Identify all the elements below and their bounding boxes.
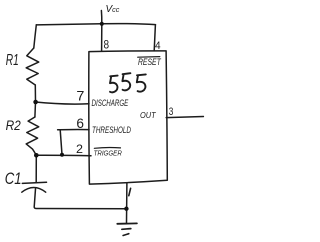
svg-text:R2: R2	[6, 117, 21, 133]
svg-text:6: 6	[76, 116, 84, 131]
svg-text:THRESHOLD: THRESHOLD	[92, 125, 131, 136]
svg-text:4: 4	[155, 40, 161, 52]
svg-text:2: 2	[76, 142, 83, 156]
svg-text:RESET: RESET	[138, 57, 161, 67]
svg-text:3: 3	[169, 106, 174, 118]
svg-text:Vcc: Vcc	[106, 4, 120, 15]
svg-text:C1: C1	[5, 170, 22, 188]
svg-text:DISCHARGE: DISCHARGE	[92, 98, 129, 108]
svg-text:TRIGGER: TRIGGER	[94, 149, 123, 158]
svg-text:8: 8	[104, 38, 110, 51]
svg-text:R1: R1	[6, 52, 19, 69]
svg-text:7: 7	[76, 88, 84, 103]
svg-text:OUT: OUT	[140, 110, 156, 120]
